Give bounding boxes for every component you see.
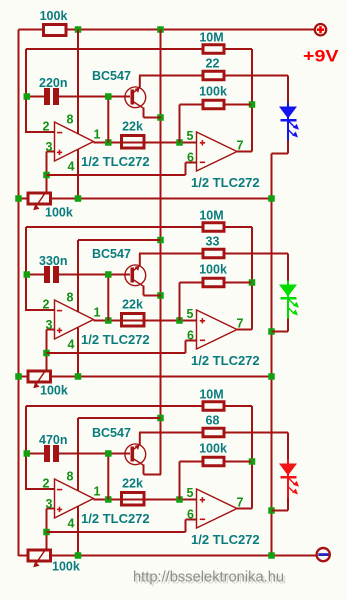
svg-text:1/2 TLC272: 1/2 TLC272 <box>191 175 260 190</box>
svg-text:3: 3 <box>46 318 53 332</box>
svg-text:2: 2 <box>43 298 50 312</box>
svg-text:1/2 TLC272: 1/2 TLC272 <box>81 332 150 347</box>
svg-text:8: 8 <box>67 113 74 127</box>
svg-text:22k: 22k <box>122 477 143 491</box>
svg-text:1/2 TLC272: 1/2 TLC272 <box>191 532 260 547</box>
svg-text:1/2 TLC272: 1/2 TLC272 <box>81 511 150 526</box>
svg-text:8: 8 <box>67 291 74 305</box>
svg-text:100k: 100k <box>199 263 227 277</box>
svg-text:5: 5 <box>187 307 194 321</box>
svg-text:470n: 470n <box>39 433 68 447</box>
svg-text:100k: 100k <box>40 9 68 23</box>
svg-text:1: 1 <box>94 128 101 142</box>
svg-text:5: 5 <box>187 129 194 143</box>
svg-text:4: 4 <box>68 517 75 531</box>
svg-text:8: 8 <box>67 470 74 484</box>
svg-text:6: 6 <box>187 508 194 522</box>
svg-text:100k: 100k <box>40 384 68 398</box>
svg-text:3: 3 <box>46 497 53 511</box>
svg-text:3: 3 <box>46 140 53 154</box>
svg-text:1/2 TLC272: 1/2 TLC272 <box>191 353 260 368</box>
svg-text:10M: 10M <box>199 388 223 402</box>
svg-text:33: 33 <box>206 235 220 249</box>
svg-text:68: 68 <box>206 414 220 428</box>
svg-text:4: 4 <box>68 160 75 174</box>
svg-text:10M: 10M <box>199 209 223 223</box>
svg-text:330n: 330n <box>39 254 68 268</box>
svg-text:1/2 TLC272: 1/2 TLC272 <box>81 154 150 169</box>
svg-text:2: 2 <box>43 477 50 491</box>
svg-text:22: 22 <box>206 57 220 71</box>
svg-text:1: 1 <box>94 306 101 320</box>
svg-text:7: 7 <box>237 139 244 153</box>
svg-text:100k: 100k <box>52 560 80 574</box>
svg-text:6: 6 <box>187 329 194 343</box>
svg-text:BC547: BC547 <box>92 247 131 261</box>
svg-text:7: 7 <box>237 496 244 510</box>
svg-text:+9V: +9V <box>303 47 339 65</box>
svg-text:22k: 22k <box>122 120 143 134</box>
svg-text:22k: 22k <box>122 298 143 312</box>
svg-text:10M: 10M <box>199 31 223 45</box>
svg-text:http://bsselektronika.hu: http://bsselektronika.hu <box>133 570 284 586</box>
svg-text:1: 1 <box>94 485 101 499</box>
svg-text:100k: 100k <box>199 85 227 99</box>
svg-text:6: 6 <box>187 151 194 165</box>
svg-text:BC547: BC547 <box>92 426 131 440</box>
svg-text:100k: 100k <box>199 442 227 456</box>
svg-text:7: 7 <box>237 317 244 331</box>
svg-text:BC547: BC547 <box>92 69 131 83</box>
svg-text:100k: 100k <box>45 206 73 220</box>
svg-text:2: 2 <box>43 120 50 134</box>
svg-text:4: 4 <box>68 338 75 352</box>
svg-text:5: 5 <box>187 486 194 500</box>
svg-text:220n: 220n <box>39 76 68 90</box>
